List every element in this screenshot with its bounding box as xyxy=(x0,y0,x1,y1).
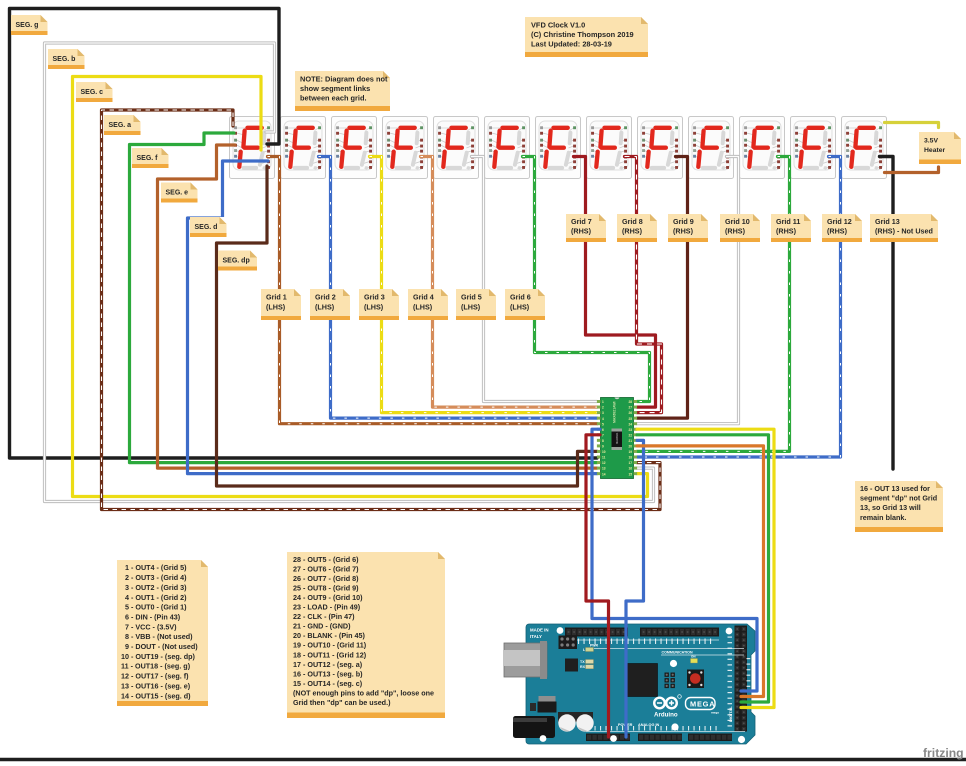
Arduino reset button xyxy=(687,670,704,689)
svg-text:12: 12 xyxy=(602,461,606,465)
note Grid 8 (RHS) xyxy=(617,214,657,242)
svg-text:26: 26 xyxy=(628,411,632,415)
Arduino ICSP header xyxy=(559,636,578,650)
svg-text:4: 4 xyxy=(602,417,604,421)
svg-text:20: 20 xyxy=(628,445,632,449)
svg-text:5 - OUT0 - (Grid 1): 5 - OUT0 - (Grid 1) xyxy=(121,603,187,612)
wire SEG d (blue) display1 to IC pin 14 xyxy=(188,161,598,474)
note SEG. b xyxy=(48,49,85,69)
wire Grid 5 (white) display5 to IC pin 1 xyxy=(472,157,598,402)
svg-text:Grid 13: Grid 13 xyxy=(875,217,900,226)
note SEG. e xyxy=(161,183,198,203)
svg-text:14: 14 xyxy=(602,472,606,476)
svg-text:5: 5 xyxy=(602,422,604,426)
wire SEG dp (dark brown) display1 to IC pin 10 xyxy=(217,166,598,486)
svg-text:SEG. e: SEG. e xyxy=(166,190,189,197)
Arduino USB-serial chip xyxy=(565,659,578,672)
svg-text:27 - OUT6 - (Grid 7): 27 - OUT6 - (Grid 7) xyxy=(293,564,359,573)
wire Grid 6 (green) display6 to IC pin 28 xyxy=(523,157,650,402)
svg-text:(NOT enough pins to add "dp",: (NOT enough pins to add "dp", loose one xyxy=(293,689,434,698)
svg-text:28: 28 xyxy=(628,400,632,404)
Arduino MCU ATmega2560 xyxy=(625,664,658,697)
note diagram does not show segment links xyxy=(295,71,390,111)
svg-text:SEG. a: SEG. a xyxy=(109,122,132,129)
wire SEG c (yellow) display1 to IC pin 15 xyxy=(73,77,648,497)
note 3.5V heater xyxy=(919,132,961,164)
svg-text:9: 9 xyxy=(602,445,604,449)
svg-text:show segment links: show segment links xyxy=(300,84,370,93)
note SEG. f xyxy=(132,148,169,168)
note Grid 6 (LHS) xyxy=(505,289,545,320)
svg-text:(LHS): (LHS) xyxy=(364,302,384,311)
svg-text:Grid 7: Grid 7 xyxy=(571,217,592,226)
svg-text:(LHS): (LHS) xyxy=(461,302,481,311)
note Grid 10 (RHS) xyxy=(720,214,760,242)
note Grid 9 (RHS) xyxy=(668,214,708,242)
note SEG. d xyxy=(190,217,227,237)
svg-text:(RHS): (RHS) xyxy=(673,227,694,236)
wire CLK (green) IC pin 22 to Arduino pin 47 xyxy=(637,435,769,702)
wire SEG f (green) display1 to IC pin 12 xyxy=(130,133,598,463)
wire Grid 8 (dark red striped) display8 to IC pin 26 xyxy=(625,157,662,413)
svg-text:SEG. g: SEG. g xyxy=(16,22,39,29)
svg-text:mega: mega xyxy=(711,711,719,715)
7-segment VFD grid display D8 xyxy=(587,117,632,179)
7-segment VFD grid display D2 xyxy=(281,117,326,179)
svg-text:17: 17 xyxy=(628,461,632,465)
wire heater return (orange-brown) display13 to 3.5V heater xyxy=(885,167,939,173)
svg-text:Last Updated: 28-03-19: Last Updated: 28-03-19 xyxy=(531,39,612,48)
Arduino MEGA badge xyxy=(686,698,716,710)
svg-text:13, so Grid 13 will: 13, so Grid 13 will xyxy=(860,503,921,512)
svg-text:(C) Christine Thompson 2019: (C) Christine Thompson 2019 xyxy=(531,30,634,39)
svg-text:6: 6 xyxy=(602,428,604,432)
Arduino top pin headers xyxy=(565,628,628,637)
note Grid 1 (LHS) xyxy=(261,289,301,320)
svg-text:(RHS): (RHS) xyxy=(622,227,643,236)
svg-text:Grid 3: Grid 3 xyxy=(364,293,385,302)
svg-text:Grid 10: Grid 10 xyxy=(725,217,750,226)
note Grid 4 (LHS) xyxy=(408,289,448,320)
svg-text:25: 25 xyxy=(628,417,632,421)
svg-text:14 - OUT15 - (seg. d): 14 - OUT15 - (seg. d) xyxy=(121,691,191,700)
note Grid 3 (LHS) xyxy=(359,289,399,320)
wire DIN (blue) IC pin 6 to Arduino pin 43 xyxy=(592,429,757,691)
svg-text:28 - OUT5 - (Grid 6): 28 - OUT5 - (Grid 6) xyxy=(293,555,359,564)
note Grid 13 (RHS) not used xyxy=(870,214,938,242)
wire Grid 11 (green) display11 to IC pin 19 xyxy=(637,157,790,452)
note Grid 12 (RHS) xyxy=(822,214,862,242)
svg-text:SEG. c: SEG. c xyxy=(81,89,104,96)
svg-text:24: 24 xyxy=(628,422,632,426)
svg-text:MEGA: MEGA xyxy=(690,700,715,709)
svg-text:NOTE: Diagram does not: NOTE: Diagram does not xyxy=(300,75,388,84)
7-segment VFD grid display D6 xyxy=(485,117,530,179)
svg-text:(LHS): (LHS) xyxy=(266,302,286,311)
svg-text:2: 2 xyxy=(602,406,604,410)
svg-text:11: 11 xyxy=(602,456,606,460)
svg-text:Arduino: Arduino xyxy=(654,712,678,719)
wire VCC 3.5V (dark red) IC pin 7 to Arduino power header xyxy=(586,435,609,737)
wire SEG e (orange-brown) display1 to IC pin 13 xyxy=(158,145,598,468)
svg-text:7 - VCC - (3.5V): 7 - VCC - (3.5V) xyxy=(121,622,177,631)
7-segment VFD grid display D9 xyxy=(638,117,683,179)
wire Grid 12 (blue) display12 to IC pin 18 xyxy=(637,157,841,458)
svg-text:RX: RX xyxy=(580,665,586,669)
svg-text:13: 13 xyxy=(602,467,606,471)
Arduino infinity logo xyxy=(654,698,677,709)
7-segment VFD grid display D5 xyxy=(434,117,479,179)
svg-text:SEG. d: SEG. d xyxy=(195,224,218,231)
svg-text:Grid 5: Grid 5 xyxy=(461,293,482,302)
svg-text:(LHS): (LHS) xyxy=(315,302,335,311)
svg-text:19: 19 xyxy=(628,450,632,454)
svg-text:(RHS): (RHS) xyxy=(571,227,592,236)
7-segment VFD grid display D3 xyxy=(332,117,377,179)
svg-text:(RHS): (RHS) xyxy=(827,227,848,236)
svg-text:6 - DIN - (Pin 43): 6 - DIN - (Pin 43) xyxy=(121,613,181,622)
svg-text:SEG. f: SEG. f xyxy=(137,155,159,162)
svg-text:17 - OUT12 - (seg. a): 17 - OUT12 - (seg. a) xyxy=(293,660,363,669)
svg-text:Grid 1: Grid 1 xyxy=(266,293,287,302)
Arduino USB connector xyxy=(504,643,547,677)
wire Grid 10 (white) display10 to IC pin 24 xyxy=(637,157,739,424)
svg-text:(LHS): (LHS) xyxy=(413,302,433,311)
svg-text:18 - OUT11 - (Grid 12): 18 - OUT11 - (Grid 12) xyxy=(293,650,367,659)
7-segment VFD grid display D4 xyxy=(383,117,428,179)
svg-text:Grid 2: Grid 2 xyxy=(315,293,336,302)
note IC pins 28-15 list xyxy=(287,552,445,718)
svg-text:(RHS): (RHS) xyxy=(725,227,746,236)
wire LOAD (yellow) IC pin 23 to Arduino pin 49 xyxy=(637,429,774,707)
7-segment VFD grid display D11 xyxy=(740,117,785,179)
wire GND (blue) IC pin 21 to Arduino GND xyxy=(626,440,644,737)
svg-text:SEG. b: SEG. b xyxy=(53,56,76,63)
Arduino bottom pin headers POWER / ANALOG IN xyxy=(586,734,630,742)
svg-text:1 - OUT4 - (Grid 5): 1 - OUT4 - (Grid 5) xyxy=(121,563,187,572)
svg-text:Grid 12: Grid 12 xyxy=(827,217,852,226)
svg-text:23 - LOAD - (Pin 49): 23 - LOAD - (Pin 49) xyxy=(293,603,361,612)
svg-text:COMMUNICATION: COMMUNICATION xyxy=(662,651,693,655)
svg-text:9 - DOUT - (Not used): 9 - DOUT - (Not used) xyxy=(121,642,198,651)
svg-text:19 - OUT10 - (Grid 11): 19 - OUT10 - (Grid 11) xyxy=(293,641,367,650)
7-segment VFD grid display D12 xyxy=(791,117,836,179)
Arduino voltage regulator xyxy=(539,696,556,702)
7-segment VFD grid display D7 xyxy=(536,117,581,179)
svg-text:26 - OUT7 - (Grid 8): 26 - OUT7 - (Grid 8) xyxy=(293,574,359,583)
note Grid 7 (RHS) xyxy=(566,214,606,242)
svg-text:27: 27 xyxy=(628,406,632,410)
svg-text:13 - OUT16 - (seg. e): 13 - OUT16 - (seg. e) xyxy=(121,681,191,690)
wire SEG b (white) display1 to IC pin 16 xyxy=(45,43,654,502)
svg-text:16: 16 xyxy=(628,467,632,471)
wire Grid 9 (maroon) display9 to IC pin 25 xyxy=(637,157,688,419)
svg-text:MAX6921: MAX6921 xyxy=(615,432,619,444)
svg-text:Grid 8: Grid 8 xyxy=(622,217,643,226)
wire Grid 7 (dark red) display7 to IC pin 27 xyxy=(574,157,656,408)
IC MAX6921 VFD driver module U1 xyxy=(597,398,637,479)
Arduino Mega 2560 board xyxy=(504,624,755,744)
svg-text:(RHS): (RHS) xyxy=(776,227,797,236)
svg-text:DIGITAL: DIGITAL xyxy=(728,706,733,722)
svg-text:23: 23 xyxy=(628,428,632,432)
note SEG. c xyxy=(76,82,113,102)
wire SEG a (brown dashed) display1 to IC pin 17 xyxy=(102,110,661,510)
note SEG. g xyxy=(11,15,48,35)
svg-text:11 - OUT18 - (seg. g): 11 - OUT18 - (seg. g) xyxy=(121,662,191,671)
svg-text:Grid then "dp" can be used.): Grid then "dp" can be used.) xyxy=(293,698,391,707)
Arduino right side double-row header xyxy=(735,626,748,732)
svg-text:2 - OUT3 - (Grid 4): 2 - OUT3 - (Grid 4) xyxy=(121,573,187,582)
Arduino electrolytic capacitors xyxy=(558,712,593,722)
svg-text:16 - OUT 13 used for: 16 - OUT 13 used for xyxy=(860,484,930,493)
svg-text:4 - OUT1 - (Grid 2): 4 - OUT1 - (Grid 2) xyxy=(121,593,187,602)
note Grid 11 (RHS) xyxy=(771,214,811,242)
wire Grid 2 (blue) display2 to IC pin 4 xyxy=(319,157,598,419)
wire Grid 1 (brown) display1 to IC pin 5 xyxy=(268,157,598,424)
svg-text:fritzing: fritzing xyxy=(923,746,964,760)
svg-text:MAX6921AWI: MAX6921AWI xyxy=(613,401,617,423)
svg-text:18: 18 xyxy=(628,456,632,460)
svg-text:8 - VBB - (Not used): 8 - VBB - (Not used) xyxy=(121,632,193,641)
wire Grid 4 (salmon) display4 to IC pin 2 xyxy=(421,157,598,408)
svg-text:Heater: Heater xyxy=(924,147,946,154)
note SEG. a xyxy=(104,115,141,135)
svg-text:24 - OUT9 - (Grid 10): 24 - OUT9 - (Grid 10) xyxy=(293,593,363,602)
wire along bottom edge (black) xyxy=(0,758,966,762)
7-segment VFD grid display D1 xyxy=(230,117,275,179)
wire Grid 13 (black) display13 unconnected end xyxy=(880,157,894,470)
svg-text:between each grid.: between each grid. xyxy=(300,93,367,102)
7-segment VFD grid display D10 xyxy=(689,117,734,179)
svg-text:VFD Clock V1.0: VFD Clock V1.0 xyxy=(531,21,585,30)
note Grid 5 (LHS) xyxy=(456,289,496,320)
svg-text:3 - OUT2 - (Grid 3): 3 - OUT2 - (Grid 3) xyxy=(121,583,187,592)
svg-text:PWR: PWR xyxy=(590,643,598,647)
svg-text:25 - OUT8 - (Grid 9): 25 - OUT8 - (Grid 9) xyxy=(293,583,359,592)
svg-text:16 - OUT13 - (seg. b): 16 - OUT13 - (seg. b) xyxy=(293,669,363,678)
svg-text:8: 8 xyxy=(602,439,604,443)
note SEG. dp xyxy=(218,251,257,271)
note IC pins 1-14 list xyxy=(117,560,208,706)
svg-text:TX: TX xyxy=(580,660,585,664)
svg-text:7: 7 xyxy=(602,433,604,437)
svg-text:remain blank.: remain blank. xyxy=(860,513,906,522)
svg-text:MADE IN: MADE IN xyxy=(530,628,549,633)
svg-text:20 - BLANK - (Pin 45): 20 - BLANK - (Pin 45) xyxy=(293,631,365,640)
wire Grid 3 (yellow) display3 to IC pin 3 xyxy=(370,157,598,413)
svg-text:(LHS): (LHS) xyxy=(510,302,530,311)
note 16 OUT13 used for segment dp xyxy=(855,481,943,532)
svg-text:22 - CLK - (Pin 47): 22 - CLK - (Pin 47) xyxy=(293,612,355,621)
svg-text:Grid 6: Grid 6 xyxy=(510,293,531,302)
Arduino power jack xyxy=(513,716,555,738)
wire SEG g (black) display1 to IC pin 11 xyxy=(10,9,598,459)
svg-text:Grid 4: Grid 4 xyxy=(413,293,434,302)
svg-text:Grid 11: Grid 11 xyxy=(776,217,800,226)
wire BLANK (orange) IC pin 20 to Arduino pin 45 xyxy=(637,446,764,697)
svg-text:15: 15 xyxy=(628,472,632,476)
Arduino mounting holes xyxy=(557,627,564,634)
note title VFD Clock V1.0 xyxy=(525,17,648,57)
svg-text:10 - OUT19 - (seg. dp): 10 - OUT19 - (seg. dp) xyxy=(121,652,195,661)
note Grid 2 (LHS) xyxy=(310,289,350,320)
svg-text:3.5V: 3.5V xyxy=(924,138,938,145)
svg-text:ITALY: ITALY xyxy=(530,634,542,639)
svg-text:15 - OUT14 - (seg. c): 15 - OUT14 - (seg. c) xyxy=(293,679,363,688)
svg-text:1: 1 xyxy=(602,400,604,404)
svg-text:22: 22 xyxy=(628,433,632,437)
svg-text:ANALOG IN: ANALOG IN xyxy=(638,723,660,727)
svg-text:(RHS) - Not Used: (RHS) - Not Used xyxy=(875,227,933,236)
svg-text:21 - GND - (GND): 21 - GND - (GND) xyxy=(293,622,351,631)
svg-text:10: 10 xyxy=(602,450,606,454)
svg-text:Grid 9: Grid 9 xyxy=(673,217,694,226)
Arduino JP5 pad grid xyxy=(665,673,675,689)
svg-text:12 - OUT17 - (seg. f): 12 - OUT17 - (seg. f) xyxy=(121,672,189,681)
svg-text:SEG. dp: SEG. dp xyxy=(223,258,250,265)
svg-text:21: 21 xyxy=(628,439,632,443)
svg-text:segment "dp" not Grid: segment "dp" not Grid xyxy=(860,494,937,503)
7-segment VFD grid display D13 xyxy=(842,117,887,179)
svg-text:3: 3 xyxy=(602,411,604,415)
wire heater supply (yellow) display13 to 3.5V heater xyxy=(885,123,939,128)
